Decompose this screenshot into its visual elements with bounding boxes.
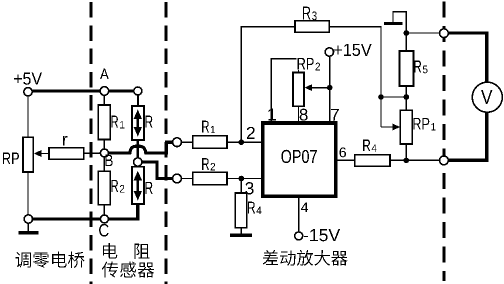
- node B: [100, 149, 108, 157]
- wire: pin 1 up and over to RP2 top: [271, 59, 298, 122]
- potentiometer RP1 body: [400, 110, 412, 144]
- label R4 (output): [363, 140, 376, 152]
- ground symbol (pin 3): [230, 233, 252, 237]
- pin label 8: [300, 109, 308, 121]
- pin label 4: [301, 202, 308, 212]
- junction RP1/output: [404, 158, 410, 164]
- label R4 (shunt): [248, 202, 261, 214]
- resistor R1 (bridge) body: [98, 105, 110, 140]
- label +5V: [14, 72, 42, 84]
- wire: output top thick to voltmeter: [448, 33, 487, 83]
- node C: [100, 215, 108, 223]
- terminal +5V: [24, 88, 32, 96]
- wire: R2 to node C: [103, 205, 105, 215]
- label +15V: [334, 44, 372, 56]
- wire: RP2 bottom to pin 8: [298, 106, 300, 121]
- wire: R5 to junction: [405, 86, 407, 110]
- RP1 wiper arrow: [381, 126, 394, 128]
- terminal bottom-left: [24, 215, 32, 223]
- label R3: [303, 7, 317, 21]
- label R (lower gauge): [145, 182, 152, 194]
- label R2 (amp): [202, 158, 215, 170]
- label R5: [414, 60, 427, 73]
- section boundary dashed line 3 (amplifier | meter): [443, 2, 446, 282]
- wire: RP bottom to ground node: [27, 172, 29, 215]
- label R (upper gauge): [145, 116, 152, 128]
- terminal -15V: [295, 232, 303, 240]
- label R1 (bridge): [111, 116, 124, 129]
- label 差动放大器 (differential amplifier): [263, 250, 348, 266]
- pin label 6: [340, 147, 346, 157]
- wire: voltmeter bottom thick to output: [448, 112, 487, 160]
- label 调零电桥 (zero-adjust bridge): [15, 252, 84, 268]
- junction R5 top node: [404, 30, 410, 36]
- wire: R1 to node B: [103, 140, 105, 150]
- terminal amplifier input 2: [173, 174, 182, 183]
- wire: pin 3 node down to R4: [240, 179, 242, 194]
- label RP: [3, 153, 19, 165]
- wire: R4 to ground: [240, 228, 242, 234]
- label R2 (bridge): [111, 180, 124, 193]
- wire: pin 2 node up to R3: [241, 27, 295, 143]
- potentiometer RP body: [23, 137, 33, 172]
- label 传感器 (sensor): [102, 262, 155, 278]
- strain gauge R (upper) body: [132, 106, 144, 140]
- wire: gauge top stub: [137, 95, 139, 106]
- wire: B to R2: [103, 157, 105, 171]
- strain gauge R (lower) body: [132, 167, 144, 204]
- wire: input 1 to R1: [181, 141, 192, 143]
- wire: +15V to pin 7: [329, 56, 331, 121]
- wire: node to output terminal (top): [406, 32, 440, 34]
- resistor R2 (bridge) body: [98, 171, 110, 204]
- wire: r to node B: [84, 152, 101, 154]
- wire: pin 4 to -15V: [298, 196, 300, 232]
- wire: pin 6 to R4: [337, 159, 355, 161]
- label 2 (node): [247, 127, 255, 139]
- wire: +5V top bus to strain gauge top: [28, 89, 138, 92]
- resistor R2 (amp) body: [193, 172, 227, 185]
- resistor R1 (amp) body: [193, 136, 227, 149]
- junction R5/RP1/R3: [378, 94, 384, 100]
- wire: node B to amplifier input 1 (with crossover hump): [108, 142, 173, 153]
- terminal output bottom: [440, 156, 449, 165]
- terminal output top: [440, 29, 449, 38]
- ground symbol (top right): [384, 22, 402, 25]
- resistor R5 body: [400, 51, 414, 86]
- junction RP2 wiper / +15V line: [327, 85, 333, 91]
- potentiometer RP2 body: [293, 73, 304, 107]
- resistor r body: [49, 148, 84, 160]
- terminal strain gauge top: [134, 87, 142, 95]
- wire: gauge midpoint to amplifier input 2: [142, 162, 173, 179]
- terminal amplifier input 1: [173, 138, 182, 147]
- wire: R3 right to gain network: [329, 27, 381, 127]
- wire: +5V down to RP: [27, 96, 29, 137]
- wire: R4 to output terminal: [390, 159, 440, 161]
- wire: upper gauge to midpoint: [136, 140, 139, 158]
- junction pin 2 node: [239, 139, 245, 145]
- bottom bus wire (ground rail of bridge): [28, 204, 137, 219]
- wire: input 2 to R2: [181, 178, 192, 180]
- label RP2: [297, 57, 323, 71]
- label 3 (node): [245, 182, 253, 194]
- RP wiper arrow (from r): [34, 150, 42, 157]
- pin label 7: [331, 109, 339, 121]
- RP2 wiper arrow to pin 7 line: [305, 84, 313, 91]
- label C: [99, 224, 108, 237]
- pin label 1: [268, 108, 276, 120]
- voltmeter V: [472, 82, 502, 112]
- junction pin 3 node: [239, 176, 245, 182]
- label B: [105, 155, 112, 166]
- terminal +15V: [325, 48, 333, 56]
- node gauge midpoint: [134, 158, 142, 166]
- label R1 (amp): [202, 121, 215, 133]
- wire: A to R1: [103, 95, 105, 105]
- wire: RP1 bottom to output rail: [405, 144, 407, 160]
- resistor R3 body: [295, 21, 329, 33]
- section boundary dashed line 1 (bridge | sensor): [89, 2, 92, 284]
- label 电阻 (resistance): [103, 243, 150, 259]
- wire: R1 to pin 2: [227, 141, 261, 143]
- resistor R4 (shunt) body: [235, 193, 247, 228]
- wire: top node to ground symbol: [393, 12, 406, 33]
- resistor R4 (output) body: [355, 155, 390, 166]
- label A: [100, 69, 109, 80]
- label OP07: [281, 150, 316, 163]
- label RP1: [413, 118, 435, 130]
- ground symbol (bridge): [27, 223, 29, 231]
- node A: [100, 87, 109, 96]
- label -15V: [304, 229, 340, 241]
- label r: [63, 136, 67, 145]
- wire: R2 to pin 3: [227, 178, 261, 180]
- op-amp U1 OP07 body: [263, 123, 336, 196]
- section boundary dashed line 2 (sensor | amplifier): [164, 2, 167, 284]
- wire: node down to R5: [405, 33, 407, 51]
